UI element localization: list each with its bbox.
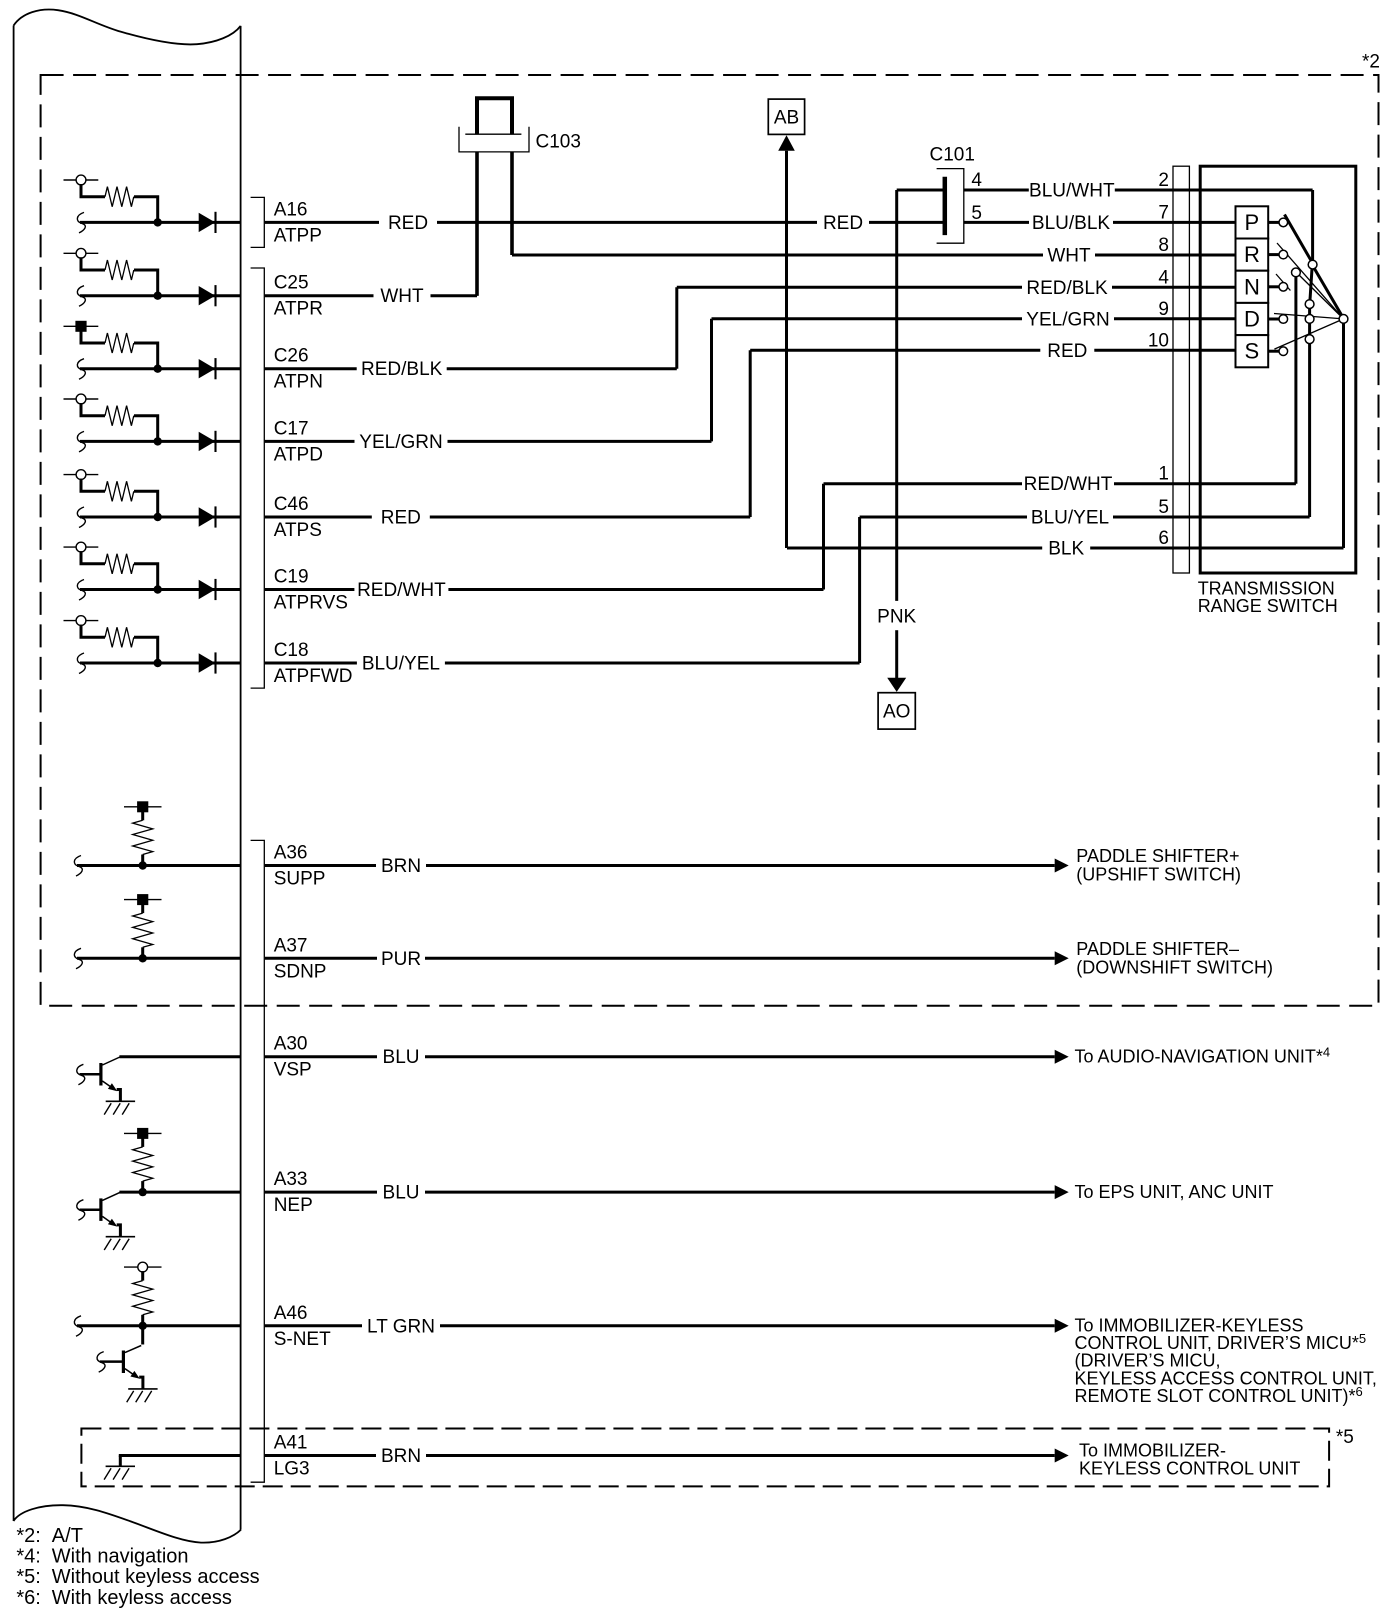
wire C19 internal [77, 580, 240, 601]
svg-text:BLK: BLK [1048, 539, 1084, 560]
svg-text:REMOTE SLOT CONTROL UNIT)*6: REMOTE SLOT CONTROL UNIT)*6 [1075, 1384, 1363, 1406]
svg-text:C101: C101 [930, 145, 975, 166]
note *5 (by box) [1336, 1427, 1354, 1448]
svg-text:BRN: BRN [381, 856, 421, 877]
wire BLU/BLK to range switch pin 7 [964, 202, 1236, 234]
svg-text:6: 6 [1158, 528, 1169, 549]
svg-text:4: 4 [1158, 267, 1169, 288]
svg-text:LG3: LG3 [274, 1459, 310, 1480]
dashed enclosure *2 (A/T) [41, 75, 1379, 1006]
svg-text:5: 5 [1158, 497, 1169, 518]
svg-text:To EPS UNIT, ANC UNIT: To EPS UNIT, ANC UNIT [1075, 1182, 1274, 1202]
wire A41 internal [119, 1454, 241, 1457]
off-page connector AO with PNK wire [877, 190, 916, 729]
destination text A36 [1076, 846, 1241, 885]
second wiper chain [1310, 269, 1312, 517]
pull-up resistor (ATPP) [81, 184, 158, 222]
pull-up resistor (ATPRVS) [81, 551, 158, 589]
wire A36 internal [74, 856, 240, 877]
svg-text:To AUDIO-NAVIGATION UNIT*4: To AUDIO-NAVIGATION UNIT*4 [1075, 1045, 1331, 1067]
wire C19 RED/WHT [265, 484, 824, 601]
svg-text:WHT: WHT [1047, 246, 1091, 267]
svg-text:S: S [1245, 339, 1260, 364]
junction (ATPRVS) [154, 585, 162, 593]
junction (SUPP) [139, 861, 147, 869]
transmission range switch box [1200, 166, 1356, 573]
chain contact a [1305, 300, 1314, 309]
contact S [1279, 347, 1288, 356]
svg-text:BLU/YEL: BLU/YEL [362, 654, 440, 675]
diode (ATPP) [199, 212, 216, 233]
svg-text:ATPR: ATPR [274, 299, 323, 320]
svg-text:SUPP: SUPP [274, 869, 326, 890]
pin A37/SDNP label [274, 935, 327, 982]
switch arm (P position) [1285, 215, 1342, 316]
switch wiper guide lines [1274, 243, 1344, 349]
pin A30/VSP label [274, 1034, 312, 1081]
svg-text:N: N [1244, 274, 1260, 299]
label C101 [930, 145, 975, 166]
svg-text:9: 9 [1158, 299, 1169, 320]
svg-text:ATPRVS: ATPRVS [274, 593, 348, 614]
junction (ATPN) [154, 365, 162, 373]
wire C18 BLU/YEL [265, 517, 860, 675]
svg-text:ATPD: ATPD [274, 444, 323, 465]
svg-text:A16: A16 [274, 199, 308, 220]
wire A33 internal [119, 1191, 240, 1194]
svg-text:RED: RED [823, 213, 863, 234]
svg-text:RED/BLK: RED/BLK [361, 359, 443, 380]
wire A46 internal [74, 1316, 240, 1337]
connector bracket A36-A41 [251, 840, 265, 1482]
power node (ATPP) [64, 175, 99, 185]
svg-text:BLU/BLK: BLU/BLK [1032, 213, 1110, 234]
svg-text:KEYLESS CONTROL UNIT: KEYLESS CONTROL UNIT [1079, 1458, 1300, 1478]
svg-text:LT GRN: LT GRN [367, 1316, 435, 1337]
wire BLK to range switch pin 6 [787, 528, 1344, 560]
svg-text:C17: C17 [274, 418, 309, 439]
transistor (S-NET) [97, 1346, 158, 1403]
junction (SDNP) [139, 954, 147, 962]
svg-text:RED: RED [388, 213, 428, 234]
svg-text:RED/BLK: RED/BLK [1026, 278, 1108, 299]
inline connector C101 [937, 169, 964, 244]
svg-text:BLU/WHT: BLU/WHT [1029, 181, 1115, 202]
junction (NEP) [139, 1188, 147, 1196]
resistor (SDNP) [124, 894, 162, 958]
wire C17 internal [77, 431, 240, 452]
wire C46 RED [265, 350, 750, 528]
wire C46 internal [77, 507, 240, 528]
power node (ATPS) [64, 470, 99, 480]
svg-text:RED/WHT: RED/WHT [1024, 474, 1113, 495]
svg-text:C18: C18 [274, 640, 309, 661]
svg-text:BLU: BLU [383, 1047, 420, 1068]
svg-text:*5: *5 [1336, 1427, 1354, 1448]
wire C26 RED/BLK [265, 287, 677, 380]
svg-text:A33: A33 [274, 1169, 308, 1190]
svg-text:*2:: *2: [16, 1525, 40, 1547]
svg-text:A30: A30 [274, 1034, 308, 1055]
pin A41/LG3 label [274, 1433, 310, 1480]
wire BLU/WHT to range switch pin 2 [964, 170, 1313, 202]
wire C17 YEL/GRN [265, 319, 712, 453]
transistor (VSP) [77, 1057, 135, 1115]
svg-text:YEL/GRN: YEL/GRN [1026, 309, 1109, 330]
wire A37 internal [74, 948, 240, 969]
svg-text:8: 8 [1158, 235, 1169, 256]
svg-text:R: R [1244, 242, 1260, 267]
label TRANSMISSION RANGE SWITCH [1198, 579, 1338, 617]
pin A16/ATPP label [274, 199, 322, 246]
svg-text:A37: A37 [274, 935, 308, 956]
dashed enclosure *5 [81, 1429, 1329, 1487]
connector bracket C25-C18 [251, 268, 265, 688]
A/T control unit band (torn paper edges) [14, 10, 242, 1543]
wire C25 internal [77, 286, 240, 307]
svg-text:2: 2 [1158, 170, 1169, 191]
resistor (NEP) [124, 1128, 162, 1192]
wire BLU/YEL to range switch pin 5 [860, 497, 1310, 529]
transistor (NEP) [77, 1192, 135, 1250]
power node (ATPN) [64, 321, 99, 332]
svg-text:RED: RED [1047, 341, 1087, 362]
range switch connector cup [1173, 166, 1189, 573]
junction (S-NET) [139, 1322, 147, 1330]
resistor (SUPP) [124, 801, 162, 865]
svg-text:WHT: WHT [380, 286, 424, 307]
svg-text:P: P [1245, 210, 1260, 235]
svg-text:1: 1 [1158, 464, 1169, 485]
contact R [1279, 250, 1288, 259]
connector bracket A16 [251, 197, 265, 247]
note *2 (top right) [1362, 52, 1380, 73]
junction (ATPR) [154, 292, 162, 300]
pin C26/ATPN label [274, 346, 323, 393]
power node (ATPD) [64, 394, 99, 404]
svg-text:ATPN: ATPN [274, 372, 323, 393]
svg-text:4: 4 [971, 170, 982, 191]
wire A30 BLU [265, 1047, 1069, 1069]
pin A33/NEP label [274, 1169, 313, 1216]
junction (ATPD) [154, 437, 162, 445]
power node (ATPR) [64, 248, 99, 258]
svg-text:A36: A36 [274, 843, 308, 864]
switch position box P [1236, 206, 1279, 238]
svg-text:C103: C103 [536, 132, 581, 153]
svg-text:AO: AO [883, 702, 910, 723]
pin C18/ATPFWD label [274, 640, 353, 687]
diode (ATPS) [199, 506, 216, 527]
switch position box S [1236, 335, 1279, 367]
svg-text:10: 10 [1148, 330, 1169, 351]
svg-text:(UPSHIFT SWITCH): (UPSHIFT SWITCH) [1076, 865, 1241, 885]
svg-text:To IMMOBILIZER-: To IMMOBILIZER- [1079, 1440, 1226, 1460]
svg-text:7: 7 [1158, 202, 1169, 223]
wire RED to range switch pin 10 [750, 330, 1235, 362]
off-page connector AB with arrow wire [768, 99, 804, 548]
wire C25 WHT to C103 [265, 152, 477, 307]
svg-text:RED: RED [381, 508, 421, 529]
destination text A33 [1075, 1182, 1274, 1202]
diode (ATPR) [199, 285, 216, 306]
wire A37 PUR to paddle shifter [265, 948, 1069, 970]
svg-text:5: 5 [971, 203, 982, 224]
svg-text:ATPS: ATPS [274, 520, 322, 541]
svg-text:*6:: *6: [16, 1587, 40, 1609]
switch position box N [1236, 271, 1279, 303]
wire A16 internal [77, 212, 240, 233]
pull-up resistor (ATPR) [81, 257, 158, 295]
pin C25/ATPR label [274, 273, 323, 320]
label C103 [536, 132, 581, 153]
svg-text:NEP: NEP [274, 1195, 313, 1216]
contact D [1279, 315, 1288, 324]
svg-text:PUR: PUR [381, 949, 421, 970]
collector stub (S-NET) [141, 1326, 144, 1345]
destination text A46 [1075, 1316, 1377, 1406]
diode (ATPN) [199, 358, 216, 379]
destination text A37 [1076, 939, 1273, 978]
svg-text:(DOWNSHIFT SWITCH): (DOWNSHIFT SWITCH) [1076, 957, 1273, 977]
svg-text:RANGE SWITCH: RANGE SWITCH [1198, 596, 1338, 616]
ground (LG3) [104, 1466, 135, 1479]
switch position box R [1236, 239, 1279, 271]
svg-text:ATPP: ATPP [274, 225, 322, 246]
svg-text:PADDLE SHIFTER–: PADDLE SHIFTER– [1076, 939, 1239, 959]
destination text A30 [1075, 1045, 1331, 1067]
wire A36 BRN to paddle shifter [265, 856, 1069, 878]
wire RED/WHT to range switch pin 1 [824, 464, 1296, 496]
svg-text:A46: A46 [274, 1303, 308, 1324]
chain contact b [1305, 315, 1314, 324]
wire A30 internal [119, 1055, 240, 1058]
contact P [1279, 218, 1288, 227]
svg-text:VSP: VSP [274, 1060, 312, 1081]
wire YEL/GRN to range switch pin 9 [712, 299, 1236, 331]
wire to C101 pin 4 [897, 189, 943, 192]
wire A16 RED to C101 pin 5 [265, 212, 943, 234]
wire A46 LT GRN [265, 1316, 1069, 1338]
svg-text:BRN: BRN [381, 1446, 421, 1467]
wire 1 riser [1292, 268, 1301, 484]
pin C46/ATPS label [274, 494, 322, 541]
wire C18 internal [77, 653, 240, 674]
C101 cavity 5 [971, 203, 982, 224]
power node (ATPRVS) [64, 542, 99, 552]
svg-text:C46: C46 [274, 494, 309, 515]
junction (ATPS) [154, 513, 162, 521]
svg-text:With navigation: With navigation [52, 1546, 189, 1568]
wire A41 BRN [265, 1446, 1069, 1468]
svg-text:BLU/YEL: BLU/YEL [1031, 508, 1109, 529]
pin C19/ATPRVS label [274, 567, 348, 614]
svg-text:C26: C26 [274, 346, 309, 367]
diode (ATPFWD) [199, 652, 216, 673]
svg-text:Without keyless access: Without keyless access [52, 1566, 260, 1588]
wire C26 internal [77, 359, 240, 380]
svg-text:YEL/GRN: YEL/GRN [359, 432, 442, 453]
svg-text:A/T: A/T [52, 1525, 83, 1547]
C101 cavity 4 [971, 170, 982, 191]
junction (ATPFWD) [154, 659, 162, 667]
ground lead (LG3) [119, 1456, 122, 1467]
svg-text:PADDLE SHIFTER+: PADDLE SHIFTER+ [1076, 846, 1239, 866]
svg-text:PNK: PNK [877, 607, 916, 628]
common pole riser [1339, 315, 1348, 549]
footnotes [16, 1525, 259, 1609]
pin A36/SUPP label [274, 843, 326, 890]
svg-text:With keyless access: With keyless access [52, 1587, 232, 1609]
svg-text:*4:: *4: [16, 1546, 40, 1568]
inline connector C103 [459, 98, 529, 295]
chain contact c [1305, 335, 1314, 344]
diode (ATPD) [199, 431, 216, 452]
svg-text:AB: AB [774, 108, 799, 129]
pull-up resistor (ATPFWD) [81, 625, 158, 663]
destination text A41 [1079, 1440, 1300, 1478]
svg-text:S-NET: S-NET [274, 1329, 331, 1350]
svg-text:*2: *2 [1362, 52, 1380, 73]
svg-text:ATPFWD: ATPFWD [274, 666, 353, 687]
wire A33 BLU [265, 1182, 1069, 1204]
power node (ATPFWD) [64, 616, 99, 626]
resistor (S-NET) [124, 1262, 162, 1326]
svg-text:D: D [1244, 307, 1260, 332]
pivot contact [1308, 190, 1317, 269]
contact N [1279, 283, 1288, 292]
svg-text:RED/WHT: RED/WHT [357, 580, 446, 601]
svg-text:A41: A41 [274, 1433, 308, 1454]
pin C17/ATPD label [274, 418, 323, 465]
switch position box D [1236, 303, 1279, 335]
pull-up resistor (ATPS) [81, 479, 158, 517]
pin A46/S-NET label [274, 1303, 331, 1350]
diode (ATPRVS) [199, 579, 216, 600]
svg-text:C25: C25 [274, 273, 309, 294]
pull-up resistor (ATPD) [81, 403, 158, 441]
junction (ATPP) [154, 218, 162, 226]
pull-up resistor (ATPN) [81, 330, 158, 368]
svg-text:*5:: *5: [16, 1566, 40, 1588]
wire WHT to range switch pin 8 [512, 235, 1236, 267]
svg-text:SDNP: SDNP [274, 961, 327, 982]
svg-text:BLU: BLU [383, 1183, 420, 1204]
svg-text:C19: C19 [274, 567, 309, 588]
wire RED/BLK to range switch pin 4 [677, 267, 1236, 299]
